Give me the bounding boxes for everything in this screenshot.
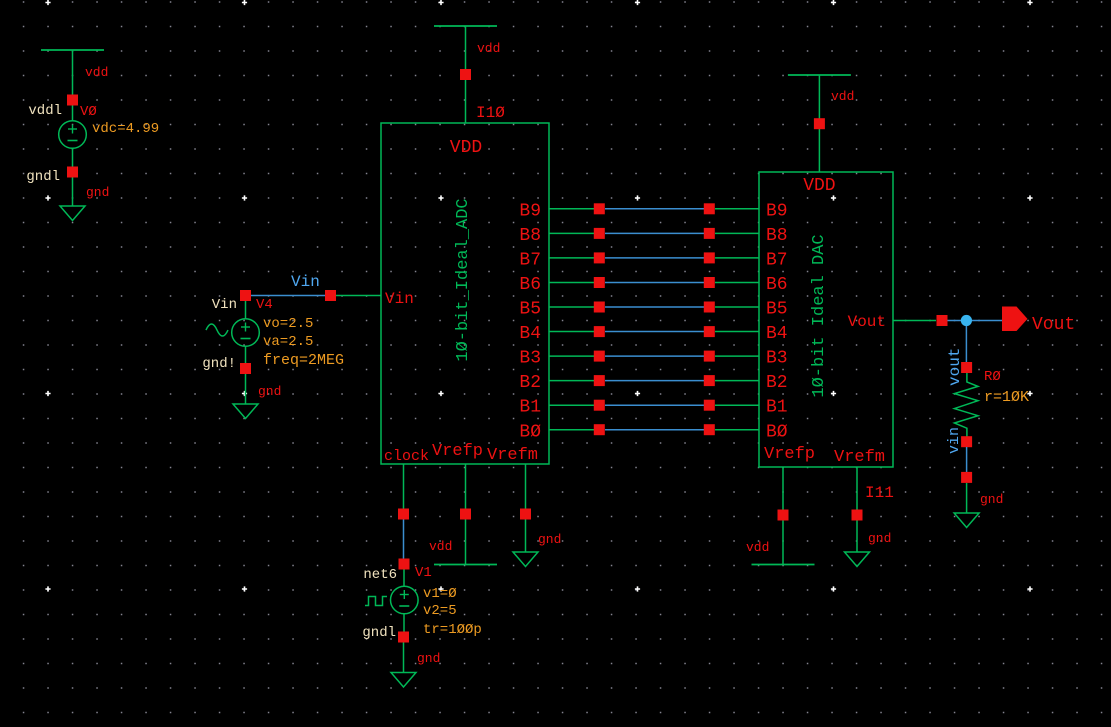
svg-text:vddl: vddl xyxy=(28,103,62,119)
pin square Vrefp (DAC) xyxy=(778,510,789,521)
pin square B5 right xyxy=(704,302,715,313)
pin square V1 minus xyxy=(398,632,409,643)
vdd supply symbol (DAC top) xyxy=(788,75,851,172)
wire Vrefm (ADC) xyxy=(525,464,527,552)
svg-text:1Ø-bit_Ideal_ADC: 1Ø-bit_Ideal_ADC xyxy=(454,198,473,361)
junction dot vout xyxy=(961,315,972,326)
svg-text:B8: B8 xyxy=(519,226,541,246)
wire Vrefm (DAC) xyxy=(856,467,858,552)
wire B9 (DAC stub) xyxy=(715,208,759,210)
pulse source V1 xyxy=(391,586,419,614)
pin square DAC vdd xyxy=(814,118,825,129)
svg-text:v1=Ø: v1=Ø xyxy=(423,586,457,602)
wire B1 (blue net) xyxy=(605,404,704,406)
wire V1 minus xyxy=(403,614,405,632)
wire Vin (blue segment) xyxy=(251,295,325,297)
pin square B5 left xyxy=(594,302,605,313)
vdd supply symbol (ADC top) xyxy=(434,26,497,123)
svg-text:B2: B2 xyxy=(519,373,541,393)
pin square B1 right xyxy=(704,400,715,411)
pin square gnd net xyxy=(961,472,972,483)
wire B8 (blue net) xyxy=(605,232,704,234)
wire B0 (blue net) xyxy=(605,429,704,431)
ground symbol (ADC Vrefm) xyxy=(513,552,538,567)
pin square B2 right xyxy=(704,375,715,386)
ground symbol (V0) xyxy=(60,206,85,221)
svg-text:tr=1ØØp: tr=1ØØp xyxy=(423,622,482,638)
wire Vrefp (ADC) xyxy=(465,464,467,565)
wire B3 (ADC stub) xyxy=(549,355,594,357)
svg-text:vo=2.5: vo=2.5 xyxy=(263,316,313,332)
pin square B8 left xyxy=(594,228,605,239)
wire net6 (blue) xyxy=(403,520,405,559)
svg-text:Vrefm: Vrefm xyxy=(834,448,885,467)
pin square Vrefp (ADC) xyxy=(460,509,471,520)
wire vin (blue) xyxy=(966,447,968,472)
resistor R0 xyxy=(954,373,978,437)
wire Vout from DAC xyxy=(893,320,936,322)
pin square B4 left xyxy=(594,326,605,337)
svg-text:gnd!: gnd! xyxy=(202,356,236,372)
svg-text:I1Ø: I1Ø xyxy=(476,104,505,122)
svg-text:V1: V1 xyxy=(415,565,432,581)
svg-text:va=2.5: va=2.5 xyxy=(263,334,313,350)
svg-text:VDD: VDD xyxy=(450,138,482,158)
wire vout down (blue) xyxy=(965,326,967,362)
ADC body I10 xyxy=(381,123,549,464)
svg-text:VDD: VDD xyxy=(803,176,835,196)
pin square B7 right xyxy=(704,252,715,263)
output pin Vout xyxy=(1002,307,1028,332)
pin square B6 right xyxy=(704,277,715,288)
svg-text:net6: net6 xyxy=(363,567,397,583)
wire Vrefp (DAC) xyxy=(782,467,784,565)
svg-text:B5: B5 xyxy=(766,300,788,320)
wire B2 (ADC stub) xyxy=(549,380,594,382)
svg-text:B1: B1 xyxy=(766,398,788,418)
svg-text:Vin: Vin xyxy=(212,297,237,313)
svg-text:Vrefm: Vrefm xyxy=(487,446,538,465)
svg-text:I11: I11 xyxy=(865,484,894,502)
svg-text:vdd: vdd xyxy=(831,89,854,104)
wire B6 (DAC stub) xyxy=(715,281,759,283)
wire B8 (DAC stub) xyxy=(715,232,759,234)
vdd supply symbol (ADC Vrefp) xyxy=(434,564,497,566)
wire Vin to ADC xyxy=(336,295,381,297)
wire B0 (DAC stub) xyxy=(715,429,759,431)
svg-text:BØ: BØ xyxy=(519,422,541,442)
wire B5 (DAC stub) xyxy=(715,306,759,308)
svg-text:BØ: BØ xyxy=(766,422,788,442)
pin square clock xyxy=(398,509,409,520)
dc source V0 xyxy=(59,106,87,149)
wire B4 (blue net) xyxy=(605,331,704,333)
pin square B7 left xyxy=(594,252,605,263)
wire B2 (DAC stub) xyxy=(715,380,759,382)
svg-text:B4: B4 xyxy=(766,324,788,344)
pin square B3 right xyxy=(704,351,715,362)
svg-text:V4: V4 xyxy=(256,297,273,313)
ground symbol (V4) xyxy=(233,404,258,419)
wire B7 (ADC stub) xyxy=(549,257,594,259)
pin square B0 left xyxy=(594,424,605,435)
svg-text:vin: vin xyxy=(946,427,963,454)
wire B9 (ADC stub) xyxy=(549,208,594,210)
wire clock (green) xyxy=(403,464,405,509)
pin square B1 left xyxy=(594,400,605,411)
svg-text:r=1ØK: r=1ØK xyxy=(984,389,1029,406)
svg-text:B1: B1 xyxy=(519,398,541,418)
svg-text:B3: B3 xyxy=(766,349,788,369)
wire B6 (blue net) xyxy=(605,281,704,283)
wire B0 (ADC stub) xyxy=(549,429,594,431)
svg-text:B4: B4 xyxy=(519,324,541,344)
pin square V4 minus xyxy=(240,363,251,374)
wire V4 plus to source xyxy=(245,301,247,319)
pin square B2 left xyxy=(594,375,605,386)
ground symbol (V1) xyxy=(391,673,416,688)
pin square V0 plus xyxy=(67,95,78,106)
svg-text:clock: clock xyxy=(384,448,429,465)
svg-text:B6: B6 xyxy=(519,275,541,295)
pin square Vout net xyxy=(937,315,948,326)
pin square R0 top xyxy=(961,362,972,373)
pin square Vrefm (DAC) xyxy=(852,510,863,521)
svg-text:gndl: gndl xyxy=(26,169,60,185)
wire B5 (blue net) xyxy=(605,306,704,308)
svg-text:Vin: Vin xyxy=(385,290,414,308)
wire vout (blue) xyxy=(948,320,1003,322)
wire V4 minus xyxy=(245,346,247,364)
pin square B8 right xyxy=(704,228,715,239)
wire B2 (blue net) xyxy=(605,380,704,382)
svg-text:B2: B2 xyxy=(766,373,788,393)
wire to ground (V4) xyxy=(245,374,247,404)
svg-text:vdc=4.99: vdc=4.99 xyxy=(92,121,159,137)
wire B7 (DAC stub) xyxy=(715,257,759,259)
pin square V0 minus xyxy=(67,167,78,178)
pin square V1 plus xyxy=(399,559,410,570)
svg-text:B5: B5 xyxy=(519,300,541,320)
pin square ADC vdd xyxy=(460,69,471,80)
svg-text:Vout: Vout xyxy=(1032,315,1075,335)
svg-text:gnd: gnd xyxy=(417,651,440,666)
DAC body I11 xyxy=(759,172,893,467)
svg-text:gnd: gnd xyxy=(258,384,281,399)
wire B9 (blue net) xyxy=(605,208,704,210)
svg-text:freq=2MEG: freq=2MEG xyxy=(263,352,344,369)
svg-text:vdd: vdd xyxy=(429,539,452,554)
pin square B9 right xyxy=(704,203,715,214)
vdd supply symbol (top-left) xyxy=(41,50,104,95)
wire to ground (V1) xyxy=(403,643,405,673)
svg-text:gnd: gnd xyxy=(538,532,561,547)
wire B5 (ADC stub) xyxy=(549,306,594,308)
vdd supply symbol (DAC Vrefp) xyxy=(752,564,815,566)
svg-text:gnd: gnd xyxy=(980,492,1003,507)
svg-text:Vout: Vout xyxy=(848,313,886,331)
wire B6 (ADC stub) xyxy=(549,281,594,283)
svg-text:gnd: gnd xyxy=(868,531,891,546)
wire B3 (DAC stub) xyxy=(715,355,759,357)
svg-text:B7: B7 xyxy=(519,250,541,270)
pin square B0 right xyxy=(704,424,715,435)
svg-text:B9: B9 xyxy=(766,201,788,221)
svg-text:vdd: vdd xyxy=(85,65,108,80)
svg-text:B8: B8 xyxy=(766,226,788,246)
svg-text:B6: B6 xyxy=(766,275,788,295)
pin square B6 left xyxy=(594,277,605,288)
pin square B4 right xyxy=(704,326,715,337)
svg-text:1Ø-bit Ideal DAC: 1Ø-bit Ideal DAC xyxy=(810,234,829,397)
svg-text:gnd: gnd xyxy=(86,185,109,200)
sine source V4 xyxy=(232,319,260,347)
sine waveform glyph xyxy=(206,324,228,336)
ground symbol (DAC Vrefm) xyxy=(845,552,870,567)
svg-text:vdd: vdd xyxy=(477,41,500,56)
pulse waveform glyph xyxy=(365,597,387,606)
pin square B9 left xyxy=(594,203,605,214)
wire B3 (blue net) xyxy=(605,355,704,357)
wire to ground (R0) xyxy=(966,483,968,513)
wire B1 (ADC stub) xyxy=(549,404,594,406)
svg-text:Vrefp: Vrefp xyxy=(432,442,483,461)
svg-text:Vin: Vin xyxy=(291,273,320,291)
wire V0 minus xyxy=(72,148,74,167)
svg-text:B3: B3 xyxy=(519,349,541,369)
pin square Vin net xyxy=(325,290,336,301)
wire B4 (ADC stub) xyxy=(549,331,594,333)
svg-text:RØ: RØ xyxy=(984,369,1001,385)
wire V1 plus to source xyxy=(403,570,405,588)
wire B8 (ADC stub) xyxy=(549,232,594,234)
svg-text:VØ: VØ xyxy=(80,104,97,120)
wire B4 (DAC stub) xyxy=(715,331,759,333)
pin square Vrefm (ADC) xyxy=(520,509,531,520)
svg-text:vdd: vdd xyxy=(746,540,769,555)
pin square R0 bottom xyxy=(961,436,972,447)
svg-text:B7: B7 xyxy=(766,250,788,270)
pin square B3 left xyxy=(594,351,605,362)
ground symbol (R0) xyxy=(954,513,979,528)
svg-text:Vrefp: Vrefp xyxy=(764,445,815,464)
pin square V4 plus xyxy=(240,290,251,301)
wire B7 (blue net) xyxy=(605,257,704,259)
wire B1 (DAC stub) xyxy=(715,404,759,406)
wire to ground xyxy=(72,178,74,207)
svg-text:v2=5: v2=5 xyxy=(423,603,457,619)
svg-text:B9: B9 xyxy=(519,201,541,221)
svg-text:gndl: gndl xyxy=(362,625,396,641)
